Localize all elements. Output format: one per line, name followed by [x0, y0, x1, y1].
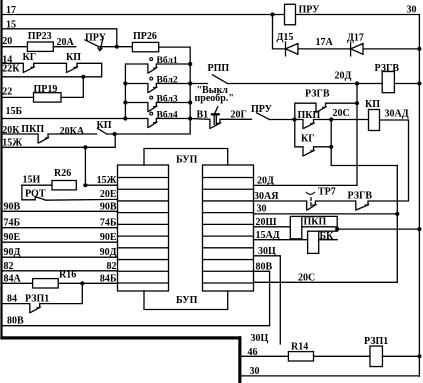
svg-text:Д15: Д15 [277, 32, 294, 43]
svg-text:82: 82 [4, 261, 14, 272]
svg-text:ПР26: ПР26 [133, 31, 157, 42]
svg-text:20: 20 [2, 36, 12, 47]
svg-text:20А: 20А [57, 37, 75, 48]
svg-text:20Д: 20Д [335, 71, 352, 82]
svg-text:РЗГВ: РЗГВ [305, 89, 330, 100]
svg-text:74Б: 74Б [4, 218, 21, 229]
svg-text:15Ж: 15Ж [2, 138, 22, 149]
svg-text:Вбл1: Вбл1 [157, 55, 178, 66]
svg-text:17: 17 [6, 5, 16, 16]
svg-text:46: 46 [248, 347, 258, 358]
svg-text:30Ц: 30Ц [258, 246, 276, 257]
svg-text:80В: 80В [256, 261, 273, 272]
svg-text:Вбл4: Вбл4 [157, 109, 178, 120]
svg-text:Вбл2: Вбл2 [157, 74, 178, 85]
svg-text:КГ: КГ [301, 134, 315, 145]
svg-text:R14: R14 [291, 341, 308, 352]
svg-text:30АД: 30АД [385, 109, 409, 120]
svg-text:20Д: 20Д [257, 175, 274, 186]
svg-text:ПРУ: ПРУ [85, 32, 107, 43]
svg-text:РПП: РПП [208, 63, 230, 74]
svg-text:30: 30 [257, 204, 267, 215]
svg-text:ТР7: ТР7 [318, 187, 336, 198]
svg-text:ПКП: ПКП [298, 110, 321, 121]
svg-text:РЗГВ: РЗГВ [348, 191, 373, 202]
svg-text:БК: БК [320, 231, 335, 242]
svg-text:84А: 84А [4, 273, 22, 284]
svg-text:20К: 20К [2, 125, 20, 136]
svg-text:30АЯ: 30АЯ [254, 191, 279, 202]
svg-text:R16: R16 [59, 270, 76, 281]
svg-text:90Е: 90Е [100, 232, 117, 243]
svg-text:ПРУ: ПРУ [299, 5, 321, 16]
svg-text:84Б: 84Б [100, 273, 117, 284]
svg-text:15Б: 15Б [6, 106, 23, 117]
svg-text:84: 84 [7, 294, 17, 305]
svg-text:В1: В1 [197, 110, 209, 121]
svg-text:РЗП1: РЗП1 [25, 294, 49, 305]
svg-text:20С: 20С [298, 272, 315, 283]
svg-text:15Ж: 15Ж [97, 175, 117, 186]
svg-text:Д17: Д17 [347, 33, 364, 44]
svg-text:22К: 22К [2, 64, 20, 75]
svg-text:30Ц: 30Ц [251, 333, 269, 344]
svg-text:80В: 80В [7, 315, 24, 326]
svg-text:74Б: 74Б [100, 218, 117, 229]
svg-text:20Е: 20Е [100, 189, 117, 200]
svg-text:20С: 20С [333, 108, 350, 119]
svg-text:82: 82 [107, 261, 117, 272]
svg-text:КП: КП [97, 120, 112, 131]
svg-text:30: 30 [407, 5, 417, 16]
svg-text:15АД: 15АД [256, 230, 280, 241]
svg-text:БУП: БУП [176, 154, 198, 165]
svg-text:15И: 15И [23, 174, 41, 185]
svg-text:КГ: КГ [23, 52, 37, 63]
svg-text:ПКП: ПКП [304, 217, 327, 228]
svg-text:КП: КП [66, 52, 81, 63]
svg-text:РЗП1: РЗП1 [364, 336, 388, 347]
svg-text:20КА: 20КА [60, 126, 85, 137]
svg-text:РОТ: РОТ [25, 188, 46, 199]
svg-text:R26: R26 [54, 168, 71, 179]
svg-text:РЗГВ: РЗГВ [375, 63, 400, 74]
svg-text:преобр.": преобр." [195, 93, 234, 104]
svg-text:90Д: 90Д [4, 247, 21, 258]
svg-text:30: 30 [250, 366, 260, 377]
svg-text:22: 22 [2, 87, 12, 98]
svg-text:17А: 17А [316, 37, 334, 48]
svg-text:ПР23: ПР23 [28, 31, 52, 42]
svg-text:БУП: БУП [176, 295, 198, 306]
svg-text:15: 15 [6, 19, 16, 30]
svg-text:Вбл3: Вбл3 [157, 93, 178, 104]
svg-text:КП: КП [365, 99, 380, 110]
svg-text:ПКП: ПКП [21, 124, 44, 135]
svg-text:90В: 90В [100, 201, 117, 212]
svg-text:90Д: 90Д [100, 247, 117, 258]
svg-text:20Г: 20Г [231, 110, 247, 121]
svg-text:90В: 90В [4, 201, 21, 212]
svg-text:ПРУ: ПРУ [251, 104, 273, 115]
svg-text:ПР19: ПР19 [34, 84, 58, 95]
svg-text:20Ш: 20Ш [256, 217, 277, 228]
svg-text:90Е: 90Е [4, 232, 21, 243]
